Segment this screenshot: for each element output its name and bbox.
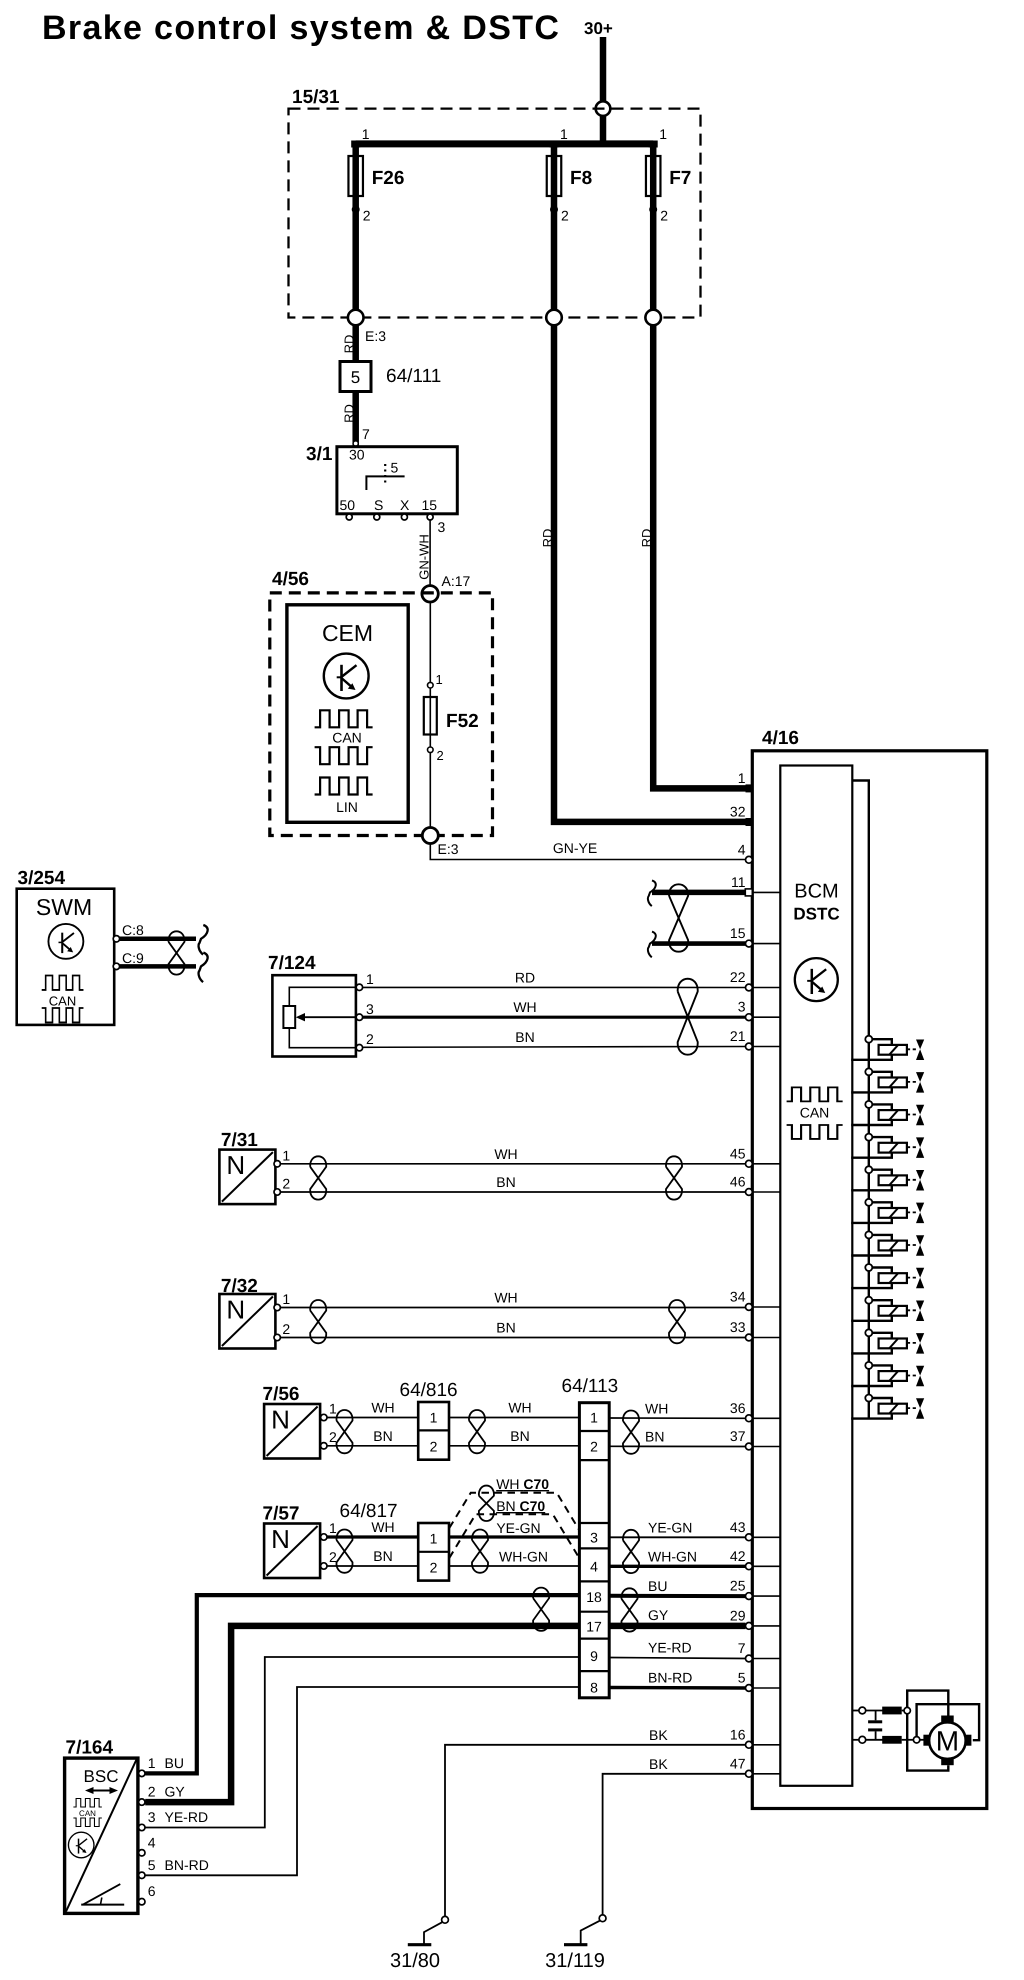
svg-text:CAN: CAN xyxy=(800,1105,830,1121)
dashed wire WH C70 xyxy=(449,1493,579,1530)
svg-text:3: 3 xyxy=(590,1530,598,1546)
svg-text:15/31: 15/31 xyxy=(292,87,340,108)
svg-text:RD: RD xyxy=(515,970,535,986)
wire GN-WH from 3/1 pin 15 to A:17 xyxy=(429,520,431,594)
CEM module 4/56 dashed enclosure xyxy=(270,593,493,836)
svg-text:2: 2 xyxy=(430,1560,438,1576)
svg-text:6: 6 xyxy=(148,1883,156,1899)
BCM pin 46 xyxy=(752,1191,780,1193)
junction 30+ at fusebox edge xyxy=(596,101,611,116)
wire BN 64/113 pin2 to BCM 37 xyxy=(609,1445,745,1447)
wire BN 7/124 pin2 to BCM 21 xyxy=(363,1046,746,1049)
wire WH 64/113 pin1 to BCM 36 xyxy=(609,1417,745,1419)
pump motor M xyxy=(929,1722,966,1759)
twisted pair at sensor xyxy=(310,1156,326,1199)
twisted pair symbol on SWM CAN stubs xyxy=(168,931,184,974)
BCM pin 3 xyxy=(752,1016,780,1018)
svg-text:BN: BN xyxy=(496,1320,515,1336)
svg-text:64/817: 64/817 xyxy=(340,1501,398,1522)
wire YE-RD from BSC pin3 to 64/113 pin9 xyxy=(145,1657,579,1828)
svg-text:47: 47 xyxy=(730,1755,746,1771)
7/57 pin 1 xyxy=(321,1534,327,1540)
svg-text:1: 1 xyxy=(738,770,746,786)
7/57 pin 2 xyxy=(321,1563,327,1569)
BSC pin 1 xyxy=(139,1770,145,1776)
wire BK from BCM pin16 to ground 31/80 xyxy=(445,1745,746,1917)
svg-text:5: 5 xyxy=(148,1857,156,1873)
BCM pin 29 xyxy=(752,1625,780,1627)
svg-text:50: 50 xyxy=(340,497,356,513)
svg-text:7: 7 xyxy=(738,1640,746,1656)
svg-text:7/164: 7/164 xyxy=(66,1738,114,1759)
7/31 pin 2 xyxy=(274,1189,280,1195)
svg-text:2: 2 xyxy=(282,1321,290,1337)
wire fuse feed F26 xyxy=(352,144,359,318)
svg-text:CEM: CEM xyxy=(322,620,373,646)
wire YE-RD 64/113 pin9 to BCM 7 xyxy=(609,1658,745,1659)
BCM pin 36 xyxy=(752,1417,780,1419)
SWM pin C:8 xyxy=(113,936,119,942)
wire BN 7/57 to 64/817 pin2 xyxy=(327,1565,418,1567)
svg-text:RD: RD xyxy=(342,335,357,354)
solenoid valve 5 xyxy=(851,1166,924,1190)
svg-text:16: 16 xyxy=(730,1726,746,1742)
svg-text:7/57: 7/57 xyxy=(263,1504,300,1525)
junction A:17 xyxy=(422,586,438,602)
7/56 pin 2 xyxy=(321,1443,327,1449)
connector 64/111 (pin 5) xyxy=(340,362,371,392)
7/124 pin 2 xyxy=(356,1045,362,1051)
svg-text:5: 5 xyxy=(351,368,360,387)
wire GY from BSC pin2 to 64/113 pin17 xyxy=(145,1626,579,1802)
svg-text:7: 7 xyxy=(362,426,370,442)
svg-text:1: 1 xyxy=(560,126,568,142)
twisted pair 43/42 xyxy=(623,1530,639,1573)
svg-text:15: 15 xyxy=(422,497,438,513)
svg-text:7/31: 7/31 xyxy=(221,1130,258,1151)
svg-text:42: 42 xyxy=(730,1548,746,1564)
svg-text:SWM: SWM xyxy=(36,894,92,920)
svg-text:31/119: 31/119 xyxy=(545,1950,605,1972)
svg-text:3/254: 3/254 xyxy=(18,868,66,889)
twisted pair 36/37 xyxy=(623,1411,639,1454)
svg-text:F26: F26 xyxy=(372,168,405,189)
svg-text:1: 1 xyxy=(659,126,667,142)
suppression resistor upper xyxy=(866,1710,883,1712)
svg-text:33: 33 xyxy=(730,1319,746,1335)
wire WH 7/31 to BCM 45 xyxy=(280,1163,745,1165)
wire WH 7/124 pin3 to BCM 3 xyxy=(363,1016,746,1019)
svg-text:64/111: 64/111 xyxy=(386,366,441,387)
svg-text:43: 43 xyxy=(730,1519,746,1535)
svg-text:7/56: 7/56 xyxy=(263,1384,300,1405)
solenoid valve 1 xyxy=(851,1036,924,1060)
svg-text:4: 4 xyxy=(738,841,746,857)
wire BN-RD from BSC pin5 to 64/113 pin8 xyxy=(145,1687,579,1875)
svg-text:LIN: LIN xyxy=(336,799,358,815)
BCM pin 1 xyxy=(746,784,754,792)
BSC pin 5 xyxy=(139,1872,145,1878)
solenoid valve 9 xyxy=(851,1297,924,1321)
svg-text:46: 46 xyxy=(730,1174,746,1190)
twisted wire symbol on 7/124 harness xyxy=(678,979,698,1055)
svg-text:WH: WH xyxy=(508,1400,531,1416)
SWM K symbol xyxy=(48,924,83,959)
twisted pair near BCM xyxy=(666,1156,682,1199)
BCM pin 33 xyxy=(752,1337,780,1339)
solenoid valve 3 xyxy=(851,1101,924,1125)
SWM CAN waveform symbol xyxy=(42,976,84,990)
SWM pin C:9 xyxy=(113,963,119,969)
twisted pair BU/GY left of 64/113 xyxy=(533,1588,549,1631)
solenoid valve 4 xyxy=(851,1134,924,1158)
suppression capacitor xyxy=(875,1711,877,1721)
BCM pin 21 xyxy=(752,1046,780,1048)
BCM pin 5 xyxy=(752,1687,780,1689)
svg-text:30+: 30+ xyxy=(584,19,613,38)
svg-text:BSC: BSC xyxy=(84,1767,119,1786)
solenoid valve 11 xyxy=(851,1362,924,1386)
wire supply bus xyxy=(356,140,654,147)
svg-text:CAN: CAN xyxy=(49,994,76,1009)
svg-text:9: 9 xyxy=(590,1648,598,1664)
BCM pin 11 xyxy=(752,891,780,893)
ground 31/80 xyxy=(442,1916,449,1923)
svg-text:2: 2 xyxy=(282,1176,290,1192)
svg-text:25: 25 xyxy=(730,1578,746,1594)
BCM pin 45 xyxy=(752,1163,780,1165)
BSC pedal angle symbol xyxy=(81,1904,124,1906)
fuse F52 xyxy=(428,682,434,688)
BSC K symbol xyxy=(68,1832,94,1858)
twisted pair on CAN stubs xyxy=(669,884,688,951)
svg-text:2: 2 xyxy=(363,208,371,224)
svg-text:1: 1 xyxy=(282,1291,290,1307)
svg-text:32: 32 xyxy=(730,804,746,820)
twisted pair after 7/56 xyxy=(336,1410,352,1453)
svg-text:WH-GN: WH-GN xyxy=(648,1548,697,1564)
svg-text:22: 22 xyxy=(730,969,746,985)
BCM pin 47 xyxy=(752,1773,780,1775)
dashed wire BN C70 xyxy=(449,1514,579,1558)
svg-text:X: X xyxy=(400,497,410,513)
wire YE-GN 64/817 to 64/113 pin3 xyxy=(449,1535,579,1538)
svg-text:WH: WH xyxy=(645,1400,668,1416)
svg-text:F8: F8 xyxy=(570,168,592,189)
svg-text:Brake control system & DSTC: Brake control system & DSTC xyxy=(42,9,560,47)
svg-text:WH: WH xyxy=(494,1290,517,1306)
svg-text:BU: BU xyxy=(648,1578,667,1594)
svg-text:1: 1 xyxy=(329,1401,337,1417)
junction F26 at fusebox bottom edge xyxy=(348,310,364,326)
svg-text:37: 37 xyxy=(730,1428,746,1444)
wire 30+ feed vertical xyxy=(600,37,607,147)
svg-text:RD: RD xyxy=(639,529,654,548)
wire GY 64/113 pin17 to BCM 29 xyxy=(609,1623,745,1630)
BCM pin 34 xyxy=(752,1306,780,1308)
svg-text:CAN: CAN xyxy=(332,730,362,746)
svg-text:M: M xyxy=(936,1726,959,1757)
svg-text:5: 5 xyxy=(738,1670,746,1686)
svg-text:A:17: A:17 xyxy=(442,573,471,589)
junction F7 at fusebox bottom edge xyxy=(645,310,661,326)
twisted pair after 64/817 xyxy=(472,1530,488,1573)
7/124 pin 3 xyxy=(356,1014,362,1020)
wire WH-GN 64/113 pin4 to BCM 42 xyxy=(609,1565,745,1568)
solenoid valve 7 xyxy=(851,1231,924,1255)
twisted pair 25/29 xyxy=(621,1588,637,1631)
svg-text:1: 1 xyxy=(282,1147,290,1163)
svg-text:1: 1 xyxy=(362,126,370,142)
svg-text:3: 3 xyxy=(148,1809,156,1825)
svg-text:E:3: E:3 xyxy=(365,328,386,344)
BSC pin 2 xyxy=(139,1799,145,1805)
svg-text:2: 2 xyxy=(590,1439,598,1455)
svg-text:F7: F7 xyxy=(669,168,691,189)
BSC pin 3 xyxy=(139,1824,145,1830)
svg-text:34: 34 xyxy=(730,1289,746,1305)
svg-text:31/80: 31/80 xyxy=(390,1950,440,1972)
wire BN 7/32 to BCM 33 xyxy=(280,1337,745,1339)
svg-text:45: 45 xyxy=(730,1145,746,1161)
wire from A:17 through F52 to E:3 xyxy=(429,602,431,836)
svg-text:WH: WH xyxy=(371,1400,394,1416)
wire WH 7/56 to 64/816 pin1 xyxy=(327,1417,418,1419)
7/124 internal potentiometer xyxy=(289,987,356,1006)
svg-text:18: 18 xyxy=(586,1589,602,1605)
wire WH 7/57 to 64/817 pin1 xyxy=(327,1535,418,1538)
motor brush loop inner xyxy=(917,1704,980,1740)
CEM inner box xyxy=(287,605,408,823)
wire RD from F7 to BCM pin 1 xyxy=(653,325,749,788)
svg-text:C:9: C:9 xyxy=(122,950,144,966)
7/32 pin 2 xyxy=(274,1334,280,1340)
wire RD 7/124 pin1 to BCM 22 xyxy=(363,986,746,988)
svg-text:3: 3 xyxy=(438,519,446,535)
svg-text:BCM: BCM xyxy=(794,881,838,903)
7/56 pin 1 xyxy=(321,1414,327,1420)
continuation brace pin 15 stub xyxy=(648,932,656,958)
svg-text:BK: BK xyxy=(649,1727,668,1743)
svg-text:29: 29 xyxy=(730,1607,746,1623)
wire valve supply bus xyxy=(852,781,869,1419)
svg-text:1: 1 xyxy=(148,1755,156,1771)
pump motor supply stubs xyxy=(852,1710,859,1712)
wire BU 64/113 pin18 to BCM 25 xyxy=(609,1594,745,1598)
svg-text:2: 2 xyxy=(148,1784,156,1800)
continuation brace C:8 xyxy=(199,925,208,955)
svg-text:17: 17 xyxy=(586,1619,602,1635)
wire CAN stub to BCM pin 15 xyxy=(652,941,746,946)
svg-text:BU: BU xyxy=(165,1755,184,1771)
twisted pair after 7/57 xyxy=(336,1530,352,1573)
svg-text:2: 2 xyxy=(660,208,668,224)
BCM pin 37 xyxy=(752,1446,780,1448)
wire fuse feed F8 xyxy=(551,144,558,318)
twisted pair after 64/816 xyxy=(469,1410,485,1453)
svg-text:C:8: C:8 xyxy=(122,922,144,938)
svg-text:BN-RD: BN-RD xyxy=(648,1670,692,1686)
svg-text:8: 8 xyxy=(590,1680,598,1696)
CEM LIN waveform symbol xyxy=(315,778,373,795)
wire WH 64/816 to 64/113 pin1 xyxy=(449,1417,579,1419)
3/1 bottom pin terminals 50 S X 15 xyxy=(346,514,352,520)
CEM CAN waveform symbol xyxy=(315,710,373,727)
fuse F8 xyxy=(547,156,562,196)
svg-text:BN: BN xyxy=(373,1548,392,1564)
wire BN 64/816 to 64/113 pin2 xyxy=(449,1445,579,1447)
BCM pin 43 xyxy=(752,1536,780,1538)
7/124 pin 1 xyxy=(356,984,362,990)
svg-text:21: 21 xyxy=(730,1028,746,1044)
svg-text:36: 36 xyxy=(730,1400,746,1416)
CEM K symbol xyxy=(324,654,369,699)
wire WH 7/32 to BCM 34 xyxy=(280,1307,745,1309)
motor brush loop outer xyxy=(907,1691,948,1771)
svg-text:RD: RD xyxy=(342,404,357,423)
svg-text:BN: BN xyxy=(510,1428,529,1444)
svg-text:BN-RD: BN-RD xyxy=(165,1857,209,1873)
svg-text:3: 3 xyxy=(366,1001,374,1017)
wire RD from F26 to connector 64/111 xyxy=(352,325,359,362)
svg-text:WH: WH xyxy=(513,999,536,1015)
svg-text:4/16: 4/16 xyxy=(762,728,799,749)
solenoid valve 8 xyxy=(851,1264,924,1288)
svg-text:E:3: E:3 xyxy=(438,841,459,857)
BSC double arrow xyxy=(89,1790,114,1792)
continuation brace C:9 xyxy=(199,953,208,983)
continuation brace pin 11 stub xyxy=(648,880,656,906)
svg-text:1: 1 xyxy=(590,1410,598,1426)
twisted pair near BCM xyxy=(669,1300,685,1343)
wire WH-GN 64/817 to 64/113 pin4 xyxy=(449,1565,579,1567)
switch position symbol inside 3/1 xyxy=(366,476,404,490)
wire BU from BSC pin1 to 64/113 pin18 xyxy=(145,1595,579,1773)
svg-text:4: 4 xyxy=(148,1834,156,1850)
svg-text:3: 3 xyxy=(738,999,746,1015)
svg-text:RD: RD xyxy=(540,529,555,548)
wire BN 7/31 to BCM 46 xyxy=(280,1191,745,1193)
svg-text:BN: BN xyxy=(373,1428,392,1444)
svg-text:2: 2 xyxy=(430,1439,438,1455)
fuse F26 xyxy=(348,156,363,196)
svg-text:YE-GN: YE-GN xyxy=(648,1519,692,1535)
BCM pin 22 xyxy=(752,987,780,989)
twisted pair on C70 dashed pair xyxy=(479,1486,494,1521)
wire RD from 64/111 to ignition switch 3/1 xyxy=(352,392,359,447)
BCM inner box xyxy=(780,766,852,1786)
svg-text:GN-YE: GN-YE xyxy=(553,840,597,856)
svg-text:3/1: 3/1 xyxy=(306,444,333,465)
svg-text:4/56: 4/56 xyxy=(272,569,309,590)
solenoid valve 6 xyxy=(851,1199,924,1223)
BSC CAN waveform symbol xyxy=(73,1799,101,1808)
BCM K symbol xyxy=(795,958,838,1001)
junction E:3 at CEM box edge xyxy=(422,828,438,844)
BCM pin 15 xyxy=(752,943,780,945)
svg-text:1: 1 xyxy=(329,1520,337,1536)
svg-text:1: 1 xyxy=(366,971,374,987)
7/32 pin 1 xyxy=(274,1304,280,1310)
BCM pin 32 xyxy=(746,818,754,826)
solenoid valve 10 xyxy=(851,1329,924,1353)
BCM pin 42 xyxy=(752,1565,780,1567)
BCM pin 4 xyxy=(746,856,753,863)
svg-text:WH C70: WH C70 xyxy=(496,1476,549,1492)
wire GN-YE from E:3 to BCM pin 4 xyxy=(430,844,745,860)
BSC pin 6 xyxy=(139,1899,145,1905)
svg-text:BN: BN xyxy=(496,1174,515,1190)
svg-text:1: 1 xyxy=(436,672,443,687)
svg-text:30: 30 xyxy=(349,447,365,463)
twisted pair at sensor xyxy=(310,1300,326,1343)
wire BK from BCM pin47 to ground 31/119 xyxy=(603,1774,746,1915)
svg-text:YE-GN: YE-GN xyxy=(496,1520,540,1536)
wire BN-RD 64/113 pin8 to BCM 5 xyxy=(609,1686,745,1690)
svg-text:GN-WH: GN-WH xyxy=(417,534,432,580)
svg-text:YE-RD: YE-RD xyxy=(648,1640,692,1656)
svg-text:2: 2 xyxy=(437,748,444,763)
svg-text:2: 2 xyxy=(561,208,569,224)
wire fuse feed F7 xyxy=(650,144,657,318)
svg-text:64/816: 64/816 xyxy=(400,1380,458,1401)
BSC pin 4 xyxy=(139,1850,145,1856)
BCM CAN waveform symbol xyxy=(787,1087,843,1101)
svg-text:4: 4 xyxy=(590,1559,598,1575)
svg-text:F52: F52 xyxy=(446,711,479,732)
svg-text:15: 15 xyxy=(730,925,746,941)
wire YE-GN 64/113 pin3 to BCM 43 xyxy=(609,1536,745,1538)
fuse F7 xyxy=(646,156,661,196)
fuse box 15/31 dashed enclosure xyxy=(289,109,701,318)
svg-text:WH-GN: WH-GN xyxy=(499,1549,548,1565)
svg-text:5: 5 xyxy=(391,460,399,476)
svg-text:BN C70: BN C70 xyxy=(496,1498,545,1514)
solenoid valve 2 xyxy=(851,1068,924,1092)
svg-text:YE-RD: YE-RD xyxy=(165,1809,209,1825)
svg-text:BN: BN xyxy=(515,1029,534,1045)
wire CAN stub from C:8 xyxy=(120,937,196,942)
7/31 pin 1 xyxy=(274,1161,280,1167)
svg-text:GY: GY xyxy=(165,1784,186,1800)
wire CAN stub from C:9 xyxy=(120,964,196,969)
junction F8 at fusebox bottom edge xyxy=(546,310,562,326)
svg-text:1: 1 xyxy=(430,1410,438,1426)
ground 31/119 xyxy=(599,1915,606,1922)
svg-text:GY: GY xyxy=(648,1607,669,1623)
svg-text:S: S xyxy=(374,497,383,513)
svg-text:11: 11 xyxy=(731,874,746,890)
svg-text:WH: WH xyxy=(494,1146,517,1162)
svg-text:CAN: CAN xyxy=(79,1809,96,1818)
suppression resistor lower xyxy=(866,1739,883,1741)
wire BN 7/56 to 64/816 pin2 xyxy=(327,1445,418,1447)
svg-text:DSTC: DSTC xyxy=(793,905,839,924)
svg-text:2: 2 xyxy=(366,1031,374,1047)
BCM pin 16 xyxy=(752,1744,780,1746)
BCM pin 25 xyxy=(752,1595,780,1597)
solenoid valve 12 xyxy=(851,1395,924,1419)
svg-text:1: 1 xyxy=(430,1531,438,1547)
wire CAN stub to BCM pin 11 xyxy=(652,890,745,896)
BCM pin 7 xyxy=(752,1658,780,1660)
svg-text:7/124: 7/124 xyxy=(268,953,316,974)
svg-text:BN: BN xyxy=(645,1429,664,1445)
svg-text:BK: BK xyxy=(649,1756,668,1772)
svg-text:64/113: 64/113 xyxy=(562,1376,619,1397)
wire RD from F8 to BCM pin 32 xyxy=(554,325,749,822)
